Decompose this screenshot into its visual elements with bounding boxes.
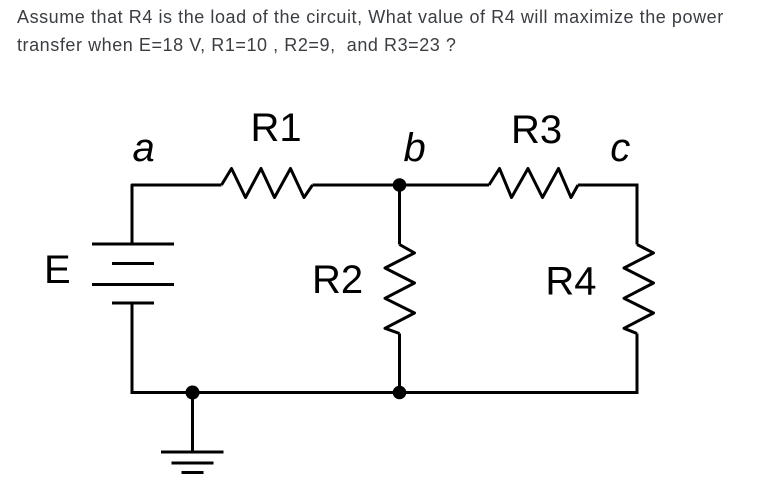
- svg-text:R2: R2: [312, 258, 363, 302]
- svg-text:E: E: [44, 248, 71, 292]
- node b: [393, 178, 407, 192]
- wire battery top lead to node a corner: [132, 185, 222, 243]
- wire R3 to corner c: [578, 184, 639, 187]
- svg-text:R1: R1: [251, 106, 302, 150]
- ground: [161, 452, 224, 473]
- bottom wire: [131, 391, 639, 394]
- wire R2 bottom vertical: [398, 334, 401, 393]
- node at bottom of R2: [393, 386, 407, 400]
- resistor R1: [222, 169, 313, 198]
- wire R1 to R3 through node b: [313, 184, 490, 187]
- svg-text:b: b: [404, 126, 426, 170]
- wire ground stub: [191, 393, 194, 453]
- svg-text:a: a: [133, 126, 155, 170]
- svg-text:R4: R4: [545, 260, 596, 304]
- wire battery bottom lead: [131, 304, 134, 394]
- resistor R4: [624, 245, 654, 334]
- svg-text:R3: R3: [511, 108, 562, 152]
- battery E: [92, 244, 174, 303]
- wire node b down to R2: [398, 185, 401, 245]
- resistor R3: [489, 169, 578, 198]
- wire R4 bottom vertical: [636, 334, 639, 395]
- resistor R2: [385, 245, 415, 334]
- wire right branch top vertical: [636, 184, 639, 245]
- svg-text:c: c: [610, 126, 630, 170]
- ground junction node: [186, 386, 200, 400]
